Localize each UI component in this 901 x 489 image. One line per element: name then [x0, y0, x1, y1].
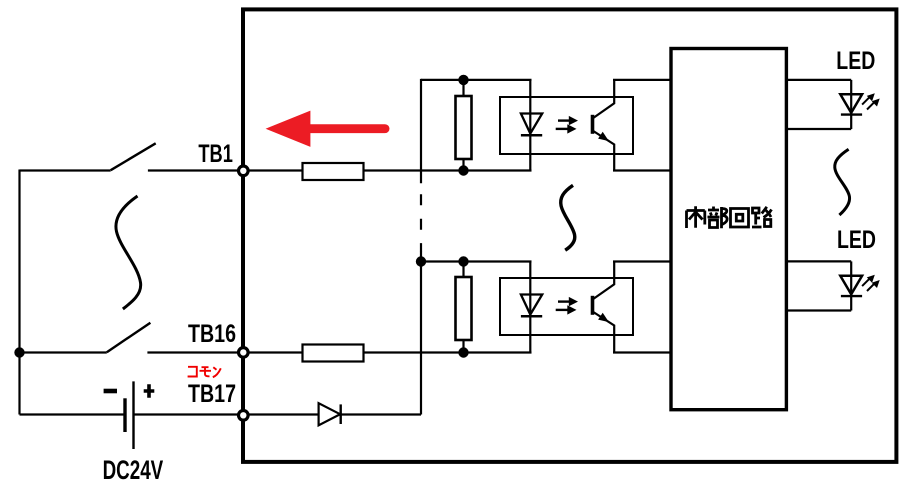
- optocoupler PC16 light arrow lower head: [567, 305, 576, 314]
- kanji 路: [752, 207, 772, 227]
- wire TB17 to diode: [243, 413, 421, 415]
- module enclosure box: [243, 9, 896, 462]
- terminal TB17 circle: [239, 411, 249, 421]
- squiggle right (channels omitted): [835, 149, 850, 215]
- channel 1 input circuit: [456, 75, 634, 176]
- LED16 emission arrow 2 shaft: [867, 284, 874, 291]
- LED1 emission arrow 1 shaft: [862, 97, 869, 104]
- wire left supply rail vertical: [18, 170, 20, 415]
- optocoupler PC1 light arrow lower shaft: [556, 128, 568, 130]
- LED16 branch wire: [850, 261, 852, 310]
- switch S16 blade: [107, 323, 151, 353]
- wire switch S1 to terminal TB1: [148, 169, 243, 171]
- LED16 emission arrow 1 shaft: [862, 279, 869, 286]
- optocoupler PC1 LED cathode bar: [521, 134, 542, 137]
- LED1 triangle: [840, 94, 862, 113]
- wire internal circuit to LED1 anode: [786, 79, 851, 81]
- resistor shunt ch16 top stub: [462, 261, 464, 277]
- switch S1 blade: [111, 143, 156, 170]
- battery plus sign: [144, 384, 155, 398]
- wire LED16 cathode return: [786, 309, 851, 311]
- battery BT1 positive plate: [132, 381, 134, 449]
- optocoupler PC1 package box: [500, 97, 633, 154]
- optocoupler PC16 light arrow upper head: [569, 297, 578, 306]
- optocoupler PC16 LED triangle: [521, 295, 542, 315]
- phototransistor Q16 emitter: [593, 312, 615, 353]
- LED16 emission arrow 2 head: [872, 280, 880, 288]
- phototransistor Q1 emitter: [593, 131, 615, 171]
- wire ch1 emitter to internal circuit: [613, 169, 672, 171]
- wire TB16 row internal (terminal to optocoupler LED): [243, 351, 532, 353]
- optocoupler PC1 light arrow lower head: [567, 124, 576, 133]
- red arrow (current direction): [266, 111, 385, 147]
- phototransistor Q1 base bar: [591, 115, 595, 134]
- optocoupler PC1 LED branch wire: [529, 80, 531, 171]
- wire internal circuit to LED16 anode: [786, 260, 851, 262]
- wire TB1 row left (external, rail to switch): [20, 169, 111, 171]
- LED16 triangle: [840, 276, 862, 295]
- wire TB16 row left (rail to switch): [20, 351, 107, 353]
- resistor series ch16 (horizontal): [303, 345, 364, 362]
- optocoupler PC1 light arrow upper shaft: [558, 119, 570, 121]
- wire common vertical solid lower to TB17: [420, 252, 422, 415]
- terminal TB1 circle: [239, 166, 249, 176]
- diode D1 triangle: [319, 403, 341, 425]
- LED16 emission arrow 1 head: [867, 275, 875, 283]
- junction dot ch1 row / shunt resistor: [458, 165, 468, 175]
- phototransistor Q16 emitter arrow: [598, 313, 609, 322]
- wire battery positive to terminal TB17: [134, 413, 244, 415]
- label 内部回路 (internal circuit) kanji: [687, 206, 772, 228]
- phototransistor Q1 emitter arrow: [598, 132, 609, 141]
- phototransistor Q16 collector: [593, 262, 615, 300]
- kanji 回: [731, 209, 749, 228]
- resistor shunt ch16 bottom stub: [462, 340, 464, 353]
- wire TB1 row internal (terminal to optocoupler LED): [243, 169, 532, 171]
- diode D1 cathode bar: [340, 404, 342, 424]
- wire common vertical dashed (channels 2-15 omitted): [420, 194, 422, 252]
- wire ch16 emitter to internal circuit: [613, 351, 672, 353]
- svg-text:DC24V: DC24V: [103, 455, 164, 485]
- wire battery negative to left rail: [20, 413, 126, 415]
- optocoupler PC1 light arrow upper head: [569, 116, 578, 125]
- wire ch1 collector to internal circuit: [613, 79, 672, 81]
- wire common rail ch1 (top): [421, 79, 532, 81]
- LED1 cathode bar: [841, 113, 862, 115]
- resistor shunt ch1 bottom stub: [462, 159, 464, 171]
- wire common vertical solid upper: [420, 79, 422, 183]
- junction dot ch16 rail / shunt resistor: [458, 256, 468, 266]
- channel 16 input circuit: [456, 256, 634, 357]
- squiggle left (channels omitted): [116, 196, 141, 309]
- LED16 cathode bar: [841, 295, 862, 297]
- junction dot left rail / TB16 row: [14, 347, 24, 357]
- svg-text:LED: LED: [837, 226, 876, 254]
- output LED ch1 block: [786, 80, 879, 129]
- svg-text:TB16: TB16: [188, 320, 236, 348]
- LED1 emission arrow 2 shaft: [867, 102, 874, 109]
- squiggle middle (channels omitted): [561, 185, 575, 250]
- optocoupler PC16 LED cathode bar: [521, 315, 542, 318]
- optocoupler PC16 light arrow upper shaft: [558, 300, 570, 302]
- kanji 内: [687, 206, 705, 228]
- svg-text:LED: LED: [836, 47, 875, 75]
- LED1 branch wire: [850, 80, 852, 129]
- optocoupler PC16 light arrow lower shaft: [556, 309, 568, 311]
- battery BT1 negative plate: [123, 398, 126, 432]
- battery minus sign: [104, 389, 117, 394]
- kanji 部: [708, 207, 728, 229]
- output LED ch16 block: [786, 261, 879, 310]
- internal circuit box: [671, 49, 786, 410]
- wire LED1 cathode return: [786, 128, 851, 130]
- phototransistor Q1 collector: [593, 80, 615, 119]
- junction dot common vertical / ch16 rail: [416, 256, 426, 266]
- svg-text:TB1: TB1: [198, 140, 233, 168]
- LED1 emission arrow 2 head: [872, 99, 880, 107]
- resistor series ch1 (horizontal): [303, 163, 364, 180]
- optocoupler PC1 LED triangle: [521, 114, 542, 134]
- resistor shunt ch16 (vertical): [456, 277, 472, 340]
- phototransistor Q16 base bar: [591, 296, 595, 315]
- svg-text:TB17: TB17: [188, 380, 236, 408]
- terminal TB16 circle: [239, 348, 249, 358]
- label コモン (common) katakana, red: [188, 367, 221, 377]
- LED1 emission arrow 1 head: [867, 93, 875, 101]
- junction dot ch16 row / shunt resistor: [458, 347, 468, 357]
- resistor shunt ch1 (vertical): [456, 96, 472, 159]
- wire common rail ch16 (top): [421, 260, 532, 262]
- wire switch S16 to terminal TB16: [147, 351, 243, 353]
- junction dot ch1 rail / shunt resistor: [458, 75, 468, 85]
- optocoupler PC16 LED branch wire: [529, 262, 531, 353]
- wire ch16 collector to internal circuit: [613, 260, 672, 262]
- resistor shunt ch1 top stub: [462, 80, 464, 96]
- optocoupler PC16 package box: [500, 278, 633, 335]
